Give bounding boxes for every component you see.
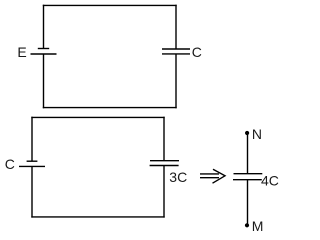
capacitor 4C	[233, 174, 262, 180]
wire left edge of loop 1 below battery	[43, 54, 45, 108]
capacitor C (top loop)	[162, 49, 190, 54]
wire top edge of loop 1	[43, 4, 177, 6]
capacitor 3C	[150, 161, 179, 166]
battery E	[31, 49, 57, 55]
wire bottom edge of loop 1	[43, 107, 177, 109]
wire right edge of loop 2 above capacitor 3C	[163, 117, 165, 161]
implication arrow	[200, 169, 225, 183]
wire from capacitor 4C to node M	[247, 180, 249, 226]
node M	[245, 223, 249, 227]
svg-text:C: C	[5, 156, 15, 172]
wire left edge of loop 2 above capacitor C	[31, 117, 33, 162]
svg-text:M: M	[252, 218, 264, 234]
svg-text:C: C	[192, 44, 202, 60]
svg-text:N: N	[252, 126, 262, 142]
wire right edge of loop 1 above capacitor C	[175, 5, 177, 49]
capacitor C (bottom loop, battery-style plates)	[19, 161, 45, 166]
wire from node N to capacitor 4C	[247, 133, 249, 174]
svg-text:4C: 4C	[261, 173, 279, 189]
wire left edge of loop 1 above battery	[43, 5, 45, 49]
wire right edge of loop 1 below capacitor C	[175, 54, 177, 108]
wire bottom edge of loop 2	[31, 216, 164, 218]
wire left edge of loop 2 below capacitor C	[31, 166, 33, 217]
svg-text:E: E	[17, 44, 26, 60]
wire right edge of loop 2 below capacitor 3C	[163, 166, 165, 218]
svg-text:3C: 3C	[169, 169, 187, 185]
wire top edge of loop 2	[31, 116, 164, 118]
node N	[245, 131, 249, 135]
